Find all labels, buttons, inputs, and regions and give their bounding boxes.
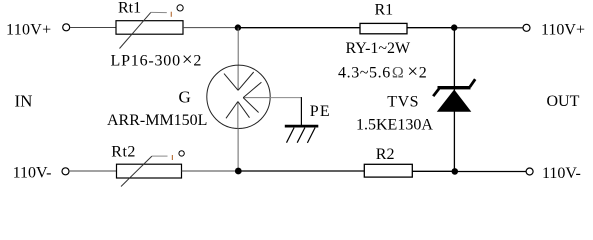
wire J4 to T4: [455, 171, 526, 173]
terminal T1 (110V+ in): [63, 24, 70, 31]
wire J3 to R2: [238, 170, 364, 172]
thermistor Rt1: [116, 5, 183, 49]
svg-text:ARR-MM150L: ARR-MM150L: [107, 112, 207, 129]
node J2 (junction top-right): [451, 24, 457, 30]
top arrow shaft: [237, 66, 239, 91]
arrester G (gas discharge tube): [207, 65, 270, 128]
wire J1 down to arrester G: [237, 28, 239, 66]
svg-text:RY-1~2W: RY-1~2W: [346, 40, 412, 57]
wire T3 to Rt2: [69, 170, 117, 172]
wire R1 to node J2: [407, 27, 452, 29]
svg-text:110V+: 110V+: [541, 21, 585, 38]
wire J1 to R1: [238, 27, 360, 29]
wire PE drop: [300, 97, 302, 125]
svg-text:R1: R1: [375, 2, 394, 19]
wire J2 down through TVS to J4: [453, 28, 455, 172]
wire Rt1 to node J1: [183, 27, 236, 29]
svg-text:Rt1: Rt1: [118, 0, 141, 17]
svg-text:TVS: TVS: [387, 93, 419, 110]
svg-text:LP16-300×2: LP16-300×2: [111, 49, 203, 70]
wire Rt2 to node J3: [182, 170, 237, 172]
resistor R1: [360, 23, 407, 33]
wire arrester to PE: [270, 97, 302, 99]
wire J2 to T2: [454, 27, 523, 29]
wire arrester bottom to J3: [237, 128, 239, 171]
terminal T4 (110V- out): [526, 168, 533, 175]
ground PE: [285, 126, 319, 143]
svg-text:110V+: 110V+: [6, 21, 51, 38]
svg-text:Rt2: Rt2: [111, 144, 136, 161]
node J1 (junction top-left): [235, 24, 241, 30]
svg-text:110V-: 110V-: [542, 165, 581, 182]
resistor R2: [364, 164, 412, 177]
wire T1 to Rt1: [70, 27, 116, 29]
svg-text:PE: PE: [310, 103, 331, 120]
thermistor Rt2: [117, 151, 185, 187]
svg-text:R2: R2: [376, 146, 395, 163]
right arrow: [243, 97, 270, 99]
svg-text:4.3~5.6Ω×2: 4.3~5.6Ω×2: [338, 62, 427, 83]
svg-text:OUT: OUT: [547, 93, 580, 110]
TVS diode D1: [433, 79, 475, 112]
terminal T3 (110V- in): [62, 168, 69, 175]
bottom arrow: [237, 102, 239, 129]
wire R2 to node J4: [412, 170, 452, 172]
node J4 (junction bottom-right): [452, 168, 459, 175]
svg-text:110V-: 110V-: [13, 164, 52, 181]
svg-text:1.5KE130A: 1.5KE130A: [356, 116, 433, 133]
svg-text:IN: IN: [15, 92, 33, 111]
node J3 (junction bottom-left): [235, 168, 242, 175]
terminal T2 (110V+ out): [523, 24, 530, 31]
svg-text:G: G: [179, 88, 191, 107]
